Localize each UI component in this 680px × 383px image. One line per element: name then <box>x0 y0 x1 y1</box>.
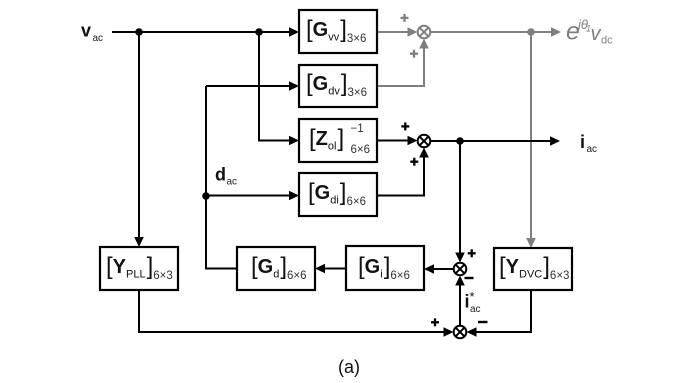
wire S4 up to S3 <box>455 276 465 326</box>
block Gi <box>346 246 424 290</box>
node gray dot <box>527 28 535 36</box>
summing junction S4 <box>454 326 467 339</box>
node dac dot <box>202 192 210 200</box>
wire dac vertical from Gd <box>206 86 238 269</box>
svg-text:i: i <box>580 132 585 152</box>
svg-text:d: d <box>215 165 226 185</box>
wire S2 output iac <box>431 136 561 146</box>
svg-text:v: v <box>81 21 91 41</box>
svg-text:ac: ac <box>93 33 104 44</box>
svg-text:(a): (a) <box>338 357 360 377</box>
wire Zol output to S2 <box>377 136 418 146</box>
svg-text:−1: −1 <box>351 123 364 135</box>
wire Gvv output gray to S1 <box>377 27 418 37</box>
wire vac branch to Zol <box>259 32 299 145</box>
block Gvv <box>299 10 377 53</box>
wire gray vertical down to YDVC <box>526 32 536 248</box>
wire Gdi output up to S2 <box>377 148 429 196</box>
node iac dot <box>456 137 464 145</box>
svg-text:*: * <box>470 289 475 304</box>
wire S1 output gray to ejtheta <box>431 27 562 37</box>
svg-text:ac: ac <box>587 144 598 155</box>
sign plus S1 left <box>401 14 409 22</box>
wire vac branch down to YPLL <box>134 32 144 247</box>
summing junction S2 <box>418 135 431 148</box>
summing junction S1 gray <box>418 26 431 39</box>
svg-text:[Zol]: [Zol] <box>309 125 344 153</box>
svg-text:6×6: 6×6 <box>351 144 371 156</box>
block Gdv <box>299 65 377 107</box>
node vac dot1 <box>135 28 143 36</box>
block YPLL <box>100 247 178 290</box>
sign minus S4 right <box>478 321 488 323</box>
sign plus S3 top <box>468 249 476 257</box>
node vac dot2 <box>255 28 263 36</box>
wire Gdv output gray up to S1 <box>377 39 429 87</box>
block Gdi <box>299 173 377 216</box>
sign plus S4 left <box>431 318 439 326</box>
summing junction S3 <box>454 263 467 276</box>
label ejtheta vdc gray <box>566 17 613 47</box>
sign plus S2 left <box>401 122 409 130</box>
block Zol <box>299 119 377 162</box>
svg-text:dc: dc <box>601 35 613 47</box>
block YDVC <box>494 248 572 290</box>
label iac ref <box>465 289 481 315</box>
wire YPLL feedback bottom to S4 <box>139 291 454 337</box>
svg-text:ac: ac <box>470 304 481 315</box>
svg-text:v: v <box>591 23 602 45</box>
wire vac main horizontal <box>112 27 299 37</box>
block Gd <box>237 247 315 290</box>
wire S3 output to Gi <box>424 264 454 274</box>
wire dac to Gdi <box>206 191 299 201</box>
wire Gi output to Gd <box>315 264 346 274</box>
sign plus S1 bottom <box>410 50 418 58</box>
sign plus S2 bottom <box>410 158 418 166</box>
svg-text:ac: ac <box>227 177 238 188</box>
wire iac down to S3 <box>455 141 465 263</box>
wire YDVC down to S4 <box>467 290 532 337</box>
wire dac to Gdv <box>206 81 299 91</box>
sign minus S3 bottom <box>465 277 474 279</box>
